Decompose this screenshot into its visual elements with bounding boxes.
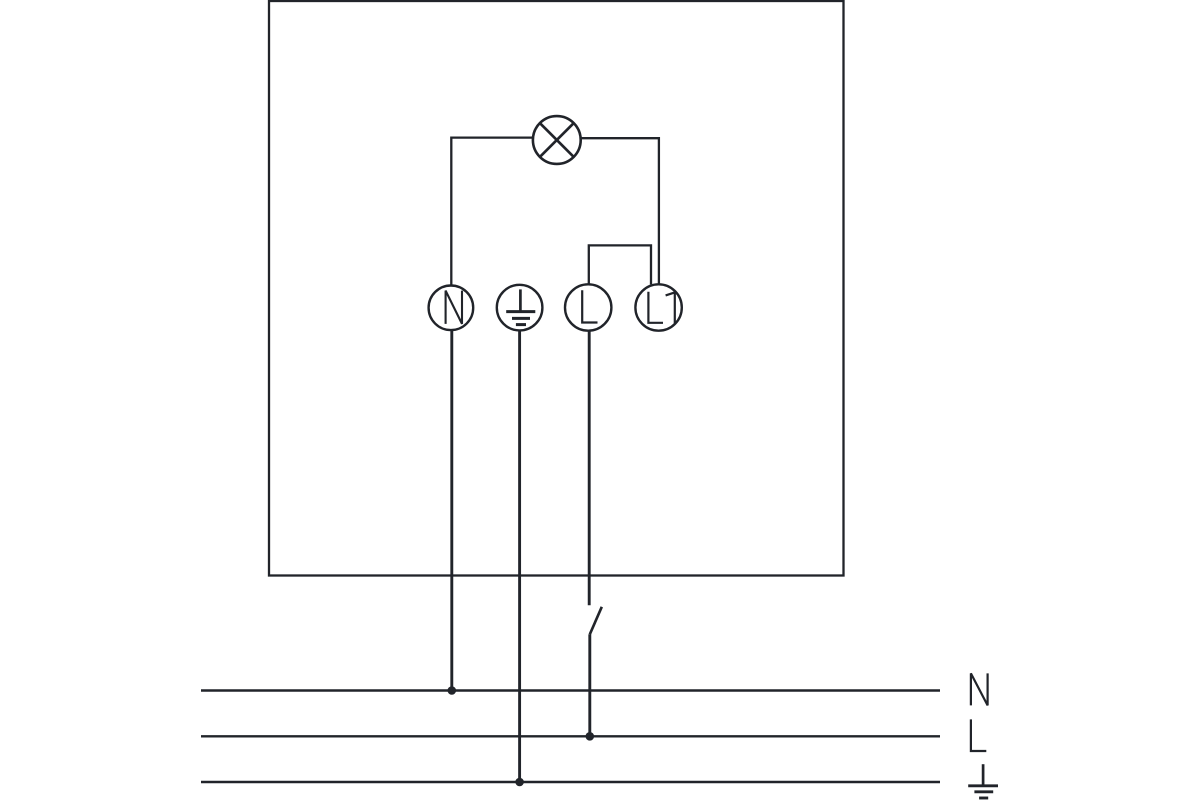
wire switch to L supply line (588, 634, 591, 736)
wire N terminal to N supply line (450, 330, 453, 690)
terminal PE (earth) (497, 285, 543, 331)
switch S1 (590, 607, 602, 635)
supply line N (201, 689, 940, 691)
supply line L (201, 735, 940, 737)
wire from N terminal up and across to lamp (451, 138, 533, 286)
wire L terminal down to switch (588, 331, 591, 606)
junction L (586, 732, 595, 741)
junction PE (515, 778, 524, 787)
supply line PE (201, 781, 940, 783)
ground symbol (968, 764, 998, 798)
terminal L (565, 284, 611, 330)
wire jumper from L terminal to L1 terminal (589, 245, 651, 284)
device box (269, 1, 844, 576)
label L (971, 719, 986, 751)
terminal N (429, 286, 474, 331)
wire from lamp to L1 terminal (581, 138, 659, 284)
terminal L1 (635, 284, 681, 330)
wire PE terminal to earth supply line (518, 330, 521, 782)
label N (971, 673, 988, 705)
lamp E1 (533, 116, 581, 164)
junction N (448, 686, 457, 695)
